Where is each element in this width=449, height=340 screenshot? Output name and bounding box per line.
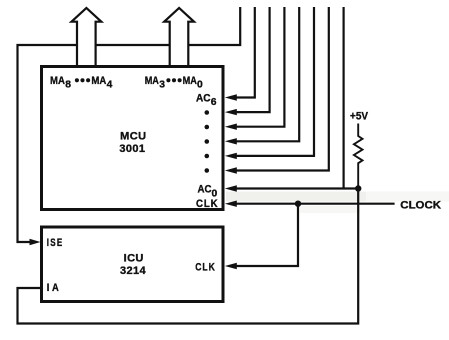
- bus arrow (MA8-MA4 outputs, hollow up arrow): [72, 8, 102, 67]
- arrowhead into AC0: [225, 185, 237, 191]
- label MCU 3001: [119, 131, 146, 156]
- wire: AC0 net horizontal to pull-up junction: [234, 187, 358, 189]
- svg-text:I A: I A: [47, 282, 60, 294]
- wire: AC0 net vertical (bus line 8): [343, 7, 345, 189]
- svg-text:MA: MA: [91, 75, 106, 87]
- label MA8...MA4: [50, 75, 113, 91]
- wire: AC3 net (bus line 5): [234, 7, 299, 141]
- svg-text:MA: MA: [183, 75, 197, 87]
- svg-text:ICU: ICU: [124, 253, 144, 265]
- scan artifact gray band between AC0 and CLK lines: [226, 192, 366, 202]
- wire: AC4 net (bus line 4): [234, 7, 284, 127]
- ellipsis dots AC5..AC1: [205, 110, 210, 173]
- wire: AC6 net (bus line 2): [234, 7, 255, 98]
- arrowhead into MCU CLK: [225, 201, 237, 207]
- svg-text:ISE: ISE: [47, 237, 64, 250]
- svg-text:3001: 3001: [119, 143, 145, 155]
- wire: AC5 net (bus line 3): [234, 7, 270, 112]
- svg-text:MA: MA: [145, 75, 159, 87]
- scan artifact gray patch below CLOCK line: [300, 206, 360, 213]
- arrowhead into AC6: [225, 94, 237, 100]
- wire: ISE net (vertical bus line 1 down, across top at y=45, down left side to ISE): [18, 7, 241, 242]
- svg-text:MCU: MCU: [120, 131, 146, 143]
- svg-text:AC: AC: [196, 92, 211, 104]
- junction dot: CLOCK branch node: [295, 201, 301, 207]
- svg-text:3214: 3214: [120, 265, 147, 277]
- svg-text:6: 6: [211, 97, 217, 108]
- pin label AC0: [198, 183, 218, 199]
- MCU U1 (3001) box: [42, 67, 224, 210]
- svg-text:0: 0: [197, 80, 203, 91]
- svg-text:CLK: CLK: [195, 262, 216, 274]
- svg-text:8: 8: [65, 80, 71, 91]
- wire: CLOCK line into MCU CLK: [234, 203, 395, 205]
- arrowhead into AC4: [225, 124, 237, 130]
- svg-text:CLK: CLK: [196, 199, 219, 211]
- svg-text:+5V: +5V: [350, 110, 369, 122]
- label MA3...MA0: [145, 75, 203, 91]
- ICU U2 (3214) box: [42, 227, 224, 302]
- arrowhead into AC1: [225, 167, 237, 173]
- resistor R (pull-up to +5V): [354, 124, 363, 189]
- arrowhead into AC3: [225, 138, 237, 144]
- arrowhead into ICU CLK: [225, 263, 237, 269]
- wire: pull-up node down / bottom rail / up to IA: [18, 189, 359, 324]
- svg-text:AC: AC: [198, 183, 212, 195]
- arrowhead into AC5: [225, 109, 237, 115]
- arrowhead into AC2: [225, 153, 237, 159]
- svg-text:CLOCK: CLOCK: [400, 200, 441, 212]
- svg-text:3: 3: [159, 80, 165, 91]
- wire: AC2 net (bus line 6): [234, 7, 314, 156]
- arrowhead into ISE input of ICU: [30, 239, 41, 245]
- bus arrow (MA3-MA0 outputs, hollow up arrow): [164, 8, 194, 67]
- pin label AC6: [196, 92, 217, 108]
- svg-text:4: 4: [107, 80, 113, 91]
- wire: AC1 net (bus line 7): [234, 7, 329, 171]
- wire: CLOCK branch down to ICU CLK: [234, 204, 298, 266]
- junction dot: AC0 / pull-up node: [355, 185, 361, 191]
- svg-text:MA: MA: [50, 75, 65, 87]
- label ICU 3214: [120, 253, 147, 277]
